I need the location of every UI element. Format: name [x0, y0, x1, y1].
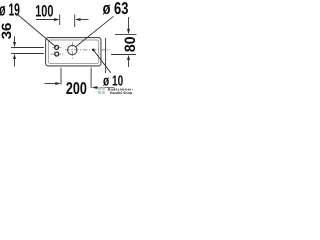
dim 100: right arrow pointing left: [75, 18, 81, 21]
leader line from drain to 'ø 63': [76, 16, 114, 46]
right small hole (filled dot): [92, 49, 95, 52]
dim 36: up arrow: [14, 58, 16, 66]
watermark logo (four squares): [98, 87, 105, 94]
centerline through upper left hole: [52, 46, 61, 48]
svg-text:36: 36: [0, 22, 14, 39]
dim 80: down arrow: [128, 17, 130, 29]
dim 36: lower extension line from lower hole: [11, 53, 44, 55]
svg-text:100: 100: [35, 3, 53, 21]
svg-text:ø 19: ø 19: [0, 0, 20, 20]
vertical centerline through drain: [71, 42, 73, 58]
dim 100: line under text with right arrow: [36, 19, 55, 21]
lower left hole: [55, 52, 59, 56]
dim 80: lower extension line: [111, 54, 136, 56]
svg-text:ø 63: ø 63: [103, 0, 129, 18]
basin inner outline: [48, 40, 98, 63]
svg-text:80: 80: [122, 37, 138, 53]
leader line from 'ø 19' to upper left hole: [18, 15, 56, 47]
dim 100: left extension line: [59, 15, 61, 26]
upper left hole: [55, 45, 59, 49]
dim 80: upper extension line: [115, 33, 137, 35]
dim 200: left extension line: [60, 68, 62, 85]
dim 36: upper extension line from upper hole: [11, 47, 44, 49]
svg-text:Handel Shop: Handel Shop: [110, 91, 132, 95]
extension line right of basin (x105.7): [105, 38, 107, 73]
dim 36: down arrow: [14, 36, 16, 43]
centerline through lower left hole: [51, 53, 64, 55]
drain circle: [68, 45, 77, 54]
dim 100: right extension line: [74, 15, 76, 28]
bottom right dim: left-pointing arrow at x91: [92, 86, 98, 89]
dim 200: left arrow pointing right: [45, 83, 57, 85]
svg-text:200: 200: [66, 79, 87, 97]
centerline through drain and right dot: [65, 49, 111, 51]
dim 80: up arrow: [128, 60, 130, 67]
leader line from right dot to 'ø 10': [94, 50, 111, 73]
extension line below right dot (x91): [90, 68, 92, 89]
basin outer outline: [46, 38, 101, 66]
